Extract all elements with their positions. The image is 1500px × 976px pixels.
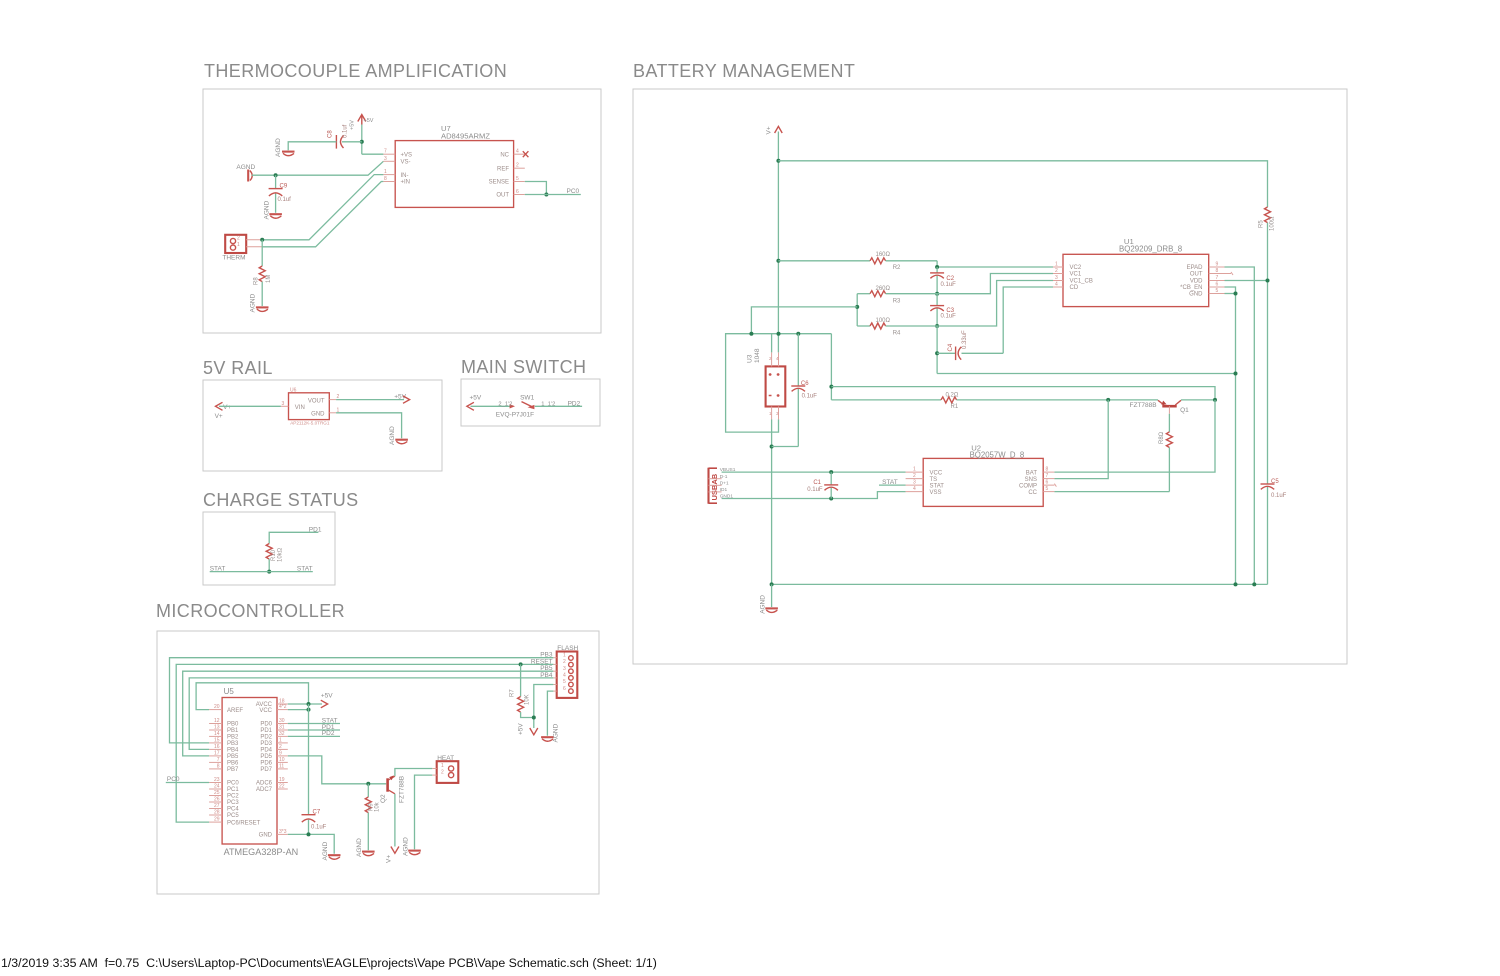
svg-text:+5V: +5V: [321, 692, 333, 699]
wire top rail to R5: [778, 161, 1267, 207]
wire C4 vertical link: [936, 326, 938, 374]
svg-text:FLASH: FLASH: [557, 645, 578, 652]
capacitor C7: [302, 810, 327, 831]
junction C6 bottom rail: [770, 445, 774, 449]
wire PD1 to R10: [269, 532, 318, 543]
svg-text:R5: R5: [1259, 220, 1265, 228]
IC U1 BQ29209_DRB_8: [1063, 237, 1209, 307]
svg-text:PD6: PD6: [260, 761, 272, 767]
svg-text:7: 7: [1216, 275, 1219, 281]
pin stubs U5 right: [277, 699, 288, 835]
svg-text:PD2: PD2: [260, 735, 272, 741]
svg-text:AGND: AGND: [275, 138, 282, 157]
wire GND pin to CB_EN vertical: [1225, 293, 1236, 295]
svg-text:30: 30: [279, 718, 285, 724]
wire net PB3 bundle to FLASH pin1: [170, 658, 554, 743]
svg-text:CD: CD: [1070, 285, 1079, 291]
capacitor C3: [930, 294, 956, 326]
svg-text:COMP: COMP: [1019, 483, 1037, 489]
junction THERM/R8: [260, 238, 264, 242]
svg-text:PB4: PB4: [540, 672, 553, 679]
svg-text:SENSE: SENSE: [489, 180, 509, 186]
svg-text:5: 5: [1046, 486, 1049, 492]
capacitor C9: [269, 184, 292, 204]
resistor R7 10K: [510, 664, 534, 717]
svg-text:PB0: PB0: [227, 722, 239, 728]
svg-text:6: 6: [516, 189, 519, 195]
svg-text:THERM: THERM: [222, 255, 245, 262]
capacitor C8: [328, 124, 349, 148]
capacitor C6: [791, 334, 817, 447]
svg-text:5: 5: [516, 176, 519, 182]
svg-text:BAT: BAT: [1026, 470, 1038, 476]
wire FLASH pin6 to AGND: [547, 691, 553, 736]
svg-text:1: 1: [384, 169, 387, 175]
svg-text:6: 6: [563, 686, 566, 692]
svg-text:25: 25: [214, 790, 220, 796]
svg-text:32: 32: [279, 731, 285, 737]
svg-text:PC2: PC2: [227, 794, 239, 800]
svg-text:R4: R4: [893, 331, 901, 337]
wire THERM pin2 to IN-: [262, 175, 383, 240]
svg-text:AP2112K-5.0TRG1: AP2112K-5.0TRG1: [290, 421, 330, 426]
svg-text:0.1uf: 0.1uf: [343, 124, 349, 138]
svg-text:STAT: STAT: [210, 566, 226, 573]
junction C2 bottom / R3: [935, 292, 939, 296]
wire R2 to VC2 pin: [937, 261, 1053, 267]
ground AGND (left rail): [236, 164, 255, 182]
svg-text:2: 2: [1055, 268, 1058, 274]
wire GND pin to AGND: [288, 834, 334, 853]
svg-text:5: 5: [1216, 288, 1219, 294]
wire C7 to GND rail: [308, 820, 310, 835]
svg-text:13: 13: [214, 725, 220, 731]
svg-text:IN-: IN-: [401, 173, 409, 179]
svg-text:17: 17: [214, 750, 220, 756]
svg-text:+5V: +5V: [364, 118, 374, 124]
svg-text:C4: C4: [948, 343, 954, 351]
svg-text:4*2: 4*2: [279, 704, 287, 710]
ground AGND (5V rail): [389, 426, 408, 445]
connector HEAT: [432, 755, 458, 783]
svg-text:PD7: PD7: [260, 767, 272, 773]
wire CB_EN cross link: [937, 373, 1235, 375]
wire R5 to C5: [1267, 223, 1269, 484]
svg-text:6: 6: [1216, 282, 1219, 288]
pin stubs U7 left: [383, 149, 395, 182]
svg-text:26: 26: [214, 797, 220, 803]
svg-text:AREF: AREF: [227, 708, 243, 714]
switch SW1 EVQ-P7J01F: [496, 394, 556, 418]
svg-text:OUT: OUT: [496, 193, 509, 199]
node PC0: [166, 776, 209, 783]
svg-text:3: 3: [282, 401, 285, 407]
wire SNS vertical: [1054, 400, 1108, 479]
svg-text:0.1uF: 0.1uF: [807, 487, 823, 493]
svg-text:C6: C6: [801, 381, 809, 387]
wire vertical R3-R4 left: [856, 294, 858, 326]
wire AGND rail to VS- pin: [252, 161, 384, 175]
svg-text:VC1: VC1: [1070, 272, 1082, 278]
junction SENSE/OUT: [544, 193, 548, 197]
wire +5V vertical to C7: [308, 704, 310, 815]
junction V+/top rail: [776, 159, 780, 163]
wire BAT vertical: [1054, 400, 1215, 472]
wire R3 to VC1 pin: [937, 274, 1053, 294]
svg-text:U5: U5: [224, 687, 235, 696]
junction C2 top: [935, 265, 939, 269]
transistor Q1 FZT788B: [1130, 400, 1190, 414]
section frame THERMOCOUPLE: [203, 89, 601, 333]
svg-text:10K: 10K: [525, 694, 531, 705]
svg-text:8: 8: [217, 763, 220, 769]
svg-text:7: 7: [384, 149, 387, 155]
wire R10 to STAT rail: [268, 559, 270, 572]
svg-text:R1: R1: [951, 404, 959, 410]
svg-text:4: 4: [563, 673, 566, 679]
svg-text:100Ω: 100Ω: [1270, 216, 1276, 231]
svg-text:VDD: VDD: [1190, 279, 1203, 285]
junction C1 bottom: [829, 497, 833, 501]
wire junction to C9: [275, 175, 277, 188]
svg-text:1M: 1M: [266, 275, 272, 283]
svg-text:8: 8: [384, 176, 387, 182]
resistor R3 260 ohm: [857, 286, 937, 305]
svg-text:EPAD: EPAD: [1187, 265, 1204, 271]
svg-text:19: 19: [279, 777, 285, 783]
svg-text:PB2: PB2: [227, 735, 239, 741]
svg-text:AD8495ARMZ: AD8495ARMZ: [441, 132, 490, 141]
junction STAT: [267, 570, 271, 574]
svg-text:HEAT: HEAT: [437, 755, 454, 762]
svg-text:4: 4: [913, 486, 916, 492]
svg-text:2: 2: [516, 163, 519, 169]
svg-text:22: 22: [279, 784, 285, 790]
svg-text:4: 4: [516, 149, 519, 155]
supply +5V arrow: [350, 115, 374, 131]
wire battery positive feed: [830, 334, 832, 400]
supply V+ arrow left: [215, 402, 232, 420]
svg-text:31: 31: [279, 725, 285, 731]
svg-text:PC0: PC0: [227, 781, 239, 787]
svg-text:VC2: VC2: [1070, 265, 1082, 271]
svg-text:PB5: PB5: [227, 754, 239, 760]
resistor R5 100 ohm: [1259, 207, 1276, 231]
svg-text:BQ29209_DRB_8: BQ29209_DRB_8: [1119, 244, 1183, 253]
wire PD1: [288, 724, 340, 731]
pin stubs U6: [281, 394, 340, 413]
svg-text:11: 11: [279, 763, 284, 769]
wire FLASH pin5 to +5V: [534, 685, 554, 729]
capacitor C1: [807, 472, 838, 498]
svg-text:PB6: PB6: [227, 761, 239, 767]
svg-text:14: 14: [214, 731, 220, 737]
svg-text:AGND: AGND: [356, 838, 363, 857]
junction GND/C7: [307, 832, 311, 836]
wire +VS pin 7: [362, 153, 384, 155]
wire cell tap to U3: [751, 307, 857, 334]
wire U3 top left pin: [771, 334, 773, 353]
svg-text:2: 2: [441, 770, 444, 776]
resistor R8 1M: [254, 266, 273, 285]
svg-text:PD3: PD3: [260, 741, 272, 747]
svg-text:PD1: PD1: [260, 728, 272, 734]
svg-text:3*3: 3*3: [279, 829, 287, 835]
wire V+ vertical trunk: [777, 132, 779, 353]
svg-text:BQ2057W_D_8: BQ2057W_D_8: [970, 451, 1025, 460]
svg-text:FZT788B: FZT788B: [1130, 402, 1157, 409]
supply +5V arrow (micro): [321, 692, 334, 708]
svg-text:R8: R8: [254, 277, 260, 285]
wire C8 left to AGND: [288, 142, 336, 150]
pin stubs U2 left: [906, 467, 924, 493]
svg-text:PB7: PB7: [227, 767, 239, 773]
pin stubs U2 right: [1043, 467, 1056, 493]
junction rail CB_EN: [1234, 582, 1238, 586]
svg-text:+5V: +5V: [470, 394, 482, 401]
wire net AREF to +5V vertical: [196, 683, 308, 710]
svg-text:ADC6: ADC6: [256, 781, 273, 787]
junction C9 on AGND rail: [274, 173, 278, 177]
svg-text:1: 1: [1055, 262, 1058, 268]
svg-text:AGND: AGND: [759, 595, 766, 614]
junction +5V/C8: [360, 140, 364, 144]
svg-text:PC1: PC1: [227, 787, 239, 793]
wire rail to AGND: [771, 584, 773, 607]
svg-text:AGND: AGND: [322, 841, 329, 860]
svg-text:SNS: SNS: [1025, 477, 1037, 483]
svg-text:BATTERY MANAGEMENT: BATTERY MANAGEMENT: [633, 61, 855, 81]
svg-text:2: 2: [913, 473, 916, 479]
svg-text:STAT: STAT: [297, 566, 313, 573]
wire THERM pin1 to +IN: [262, 182, 383, 247]
pin stubs U5 left: [209, 704, 222, 823]
svg-text:8: 8: [1046, 467, 1049, 473]
svg-text:V+: V+: [223, 404, 231, 411]
svg-text:PD2: PD2: [568, 401, 581, 408]
section frame MAIN SWITCH: [461, 379, 600, 426]
junction wire A: [829, 385, 833, 389]
svg-text:VS-: VS-: [401, 160, 411, 166]
wire SENSE to OUT: [525, 182, 547, 195]
svg-text:REF: REF: [497, 166, 509, 172]
svg-text:AGND: AGND: [250, 293, 257, 312]
svg-text:Q1: Q1: [1180, 407, 1189, 414]
wire net PB5 bundle to FLASH pin3: [183, 671, 554, 756]
junction VDD/R5: [1266, 279, 1270, 283]
svg-text:NC: NC: [500, 152, 509, 158]
svg-text:CC: CC: [1028, 490, 1037, 496]
svg-text:VOUT: VOUT: [308, 398, 325, 404]
ground AGND (C9): [264, 200, 282, 219]
wire +5V vertical to junction: [361, 125, 363, 155]
svg-text:AGND: AGND: [264, 200, 271, 219]
wire C9 to AGND: [275, 194, 277, 213]
svg-text:100Ω: 100Ω: [876, 318, 891, 324]
svg-text:R10: R10: [271, 549, 277, 561]
supply +5V arrow down (FLASH): [517, 723, 538, 735]
junction R7/+5V: [532, 716, 536, 720]
connector U3 1048 battery clip: [747, 348, 786, 419]
svg-text:PC4: PC4: [227, 807, 239, 813]
junction AVCC: [307, 702, 311, 706]
svg-text:C1: C1: [813, 480, 821, 486]
svg-text:3: 3: [384, 156, 387, 162]
battery holder U3 wire loop: [726, 332, 832, 432]
wire +5V to switch: [471, 405, 513, 407]
wire junction to R8: [261, 240, 263, 266]
junction rail EPAD: [1252, 582, 1256, 586]
junction SNS tap: [1106, 398, 1110, 402]
svg-text:+VS: +VS: [401, 152, 413, 158]
svg-text:+5V: +5V: [350, 120, 356, 130]
svg-text:C7: C7: [313, 810, 321, 816]
svg-text:7: 7: [1046, 473, 1049, 479]
wire PD2: [288, 730, 340, 737]
svg-text:STAT: STAT: [882, 479, 898, 486]
svg-text:2: 2: [237, 236, 240, 242]
connector FLASH: [553, 645, 578, 698]
svg-text:TS: TS: [930, 477, 938, 483]
svg-text:VIN: VIN: [295, 405, 305, 411]
junction rail AGND: [770, 582, 774, 586]
svg-text:0.1uF: 0.1uF: [941, 314, 957, 320]
svg-text:GND: GND: [259, 833, 273, 839]
svg-text:9: 9: [279, 750, 282, 756]
svg-text:R8Ω: R8Ω: [1159, 431, 1165, 444]
junction BAT line: [1213, 398, 1217, 402]
svg-text:PB4: PB4: [227, 748, 239, 754]
NC pin X marker: [523, 151, 529, 157]
svg-text:AGND: AGND: [236, 164, 255, 171]
svg-text:PD0: PD0: [260, 722, 272, 728]
wire CB_EN down to rail: [1225, 287, 1236, 584]
svg-text:PB3: PB3: [227, 741, 239, 747]
ground AGND (FLASH): [541, 723, 559, 742]
svg-text:0.1uF: 0.1uF: [1271, 493, 1287, 499]
svg-text:THERMOCOUPLE AMPLIFICATION: THERMOCOUPLE AMPLIFICATION: [204, 61, 507, 81]
svg-text:23: 23: [214, 777, 220, 783]
svg-text:7: 7: [217, 757, 220, 763]
wire VBUS1 to VCC: [722, 471, 906, 473]
connector THERM: [222, 235, 262, 262]
svg-text:24: 24: [214, 784, 220, 790]
svg-text:20: 20: [214, 704, 220, 710]
op-amp U7 AD8495ARMZ: [395, 124, 513, 207]
svg-text:0.2Ω: 0.2Ω: [946, 393, 959, 399]
svg-text:28: 28: [214, 810, 220, 816]
svg-text:PD4: PD4: [260, 748, 272, 754]
svg-text:C8: C8: [328, 130, 334, 138]
svg-text:3: 3: [1055, 275, 1058, 281]
wire R8 to CC pin: [1054, 491, 1169, 493]
svg-text:U3: U3: [747, 354, 754, 363]
svg-text:ID1: ID1: [720, 487, 728, 493]
svg-text:+IN: +IN: [401, 180, 411, 186]
svg-text:5: 5: [563, 679, 566, 685]
svg-text:3: 3: [913, 480, 916, 486]
svg-text:VC1_CB: VC1_CB: [1070, 279, 1093, 285]
svg-text:D-1: D-1: [720, 474, 728, 480]
wire C6 bottom link: [772, 446, 799, 448]
svg-text:12: 12: [214, 718, 220, 724]
transistor Q2 FZT788B: [380, 775, 406, 803]
svg-text:VSS: VSS: [930, 490, 942, 496]
junction RESET/R7: [519, 662, 523, 666]
ground AGND (HEAT): [402, 837, 421, 856]
wire Q2 emitter to V+: [394, 794, 396, 847]
pin OUT open stub: [1225, 272, 1234, 275]
svg-text:0.1uF: 0.1uF: [802, 393, 818, 399]
junction CB_EN cross: [1234, 372, 1238, 376]
svg-text:29: 29: [214, 817, 220, 823]
wire VCC: [288, 709, 309, 711]
svg-text:R3: R3: [893, 298, 901, 304]
capacitor C5: [1261, 479, 1287, 584]
svg-text:1/3/2019 3:35 AM f=0.75 C:\U: 1/3/2019 3:35 AM f=0.75 C:\Users\Laptop-…: [1, 956, 657, 970]
wire net PB4 bundle to FLASH pin4: [189, 678, 553, 750]
resistor R8 (battery): [1159, 414, 1173, 492]
svg-text:2: 2: [279, 744, 282, 750]
svg-text:V+: V+: [766, 126, 773, 134]
svg-text:FZT788B: FZT788B: [399, 776, 406, 803]
wire GND to AGND: [336, 413, 402, 439]
svg-text:U6: U6: [290, 388, 297, 394]
pin stubs U1 right: [1209, 262, 1225, 295]
ground AGND (C8): [275, 138, 295, 157]
wire ground trunk from U3: [771, 419, 773, 584]
svg-text:VCC: VCC: [930, 470, 943, 476]
svg-text:10kΩ: 10kΩ: [278, 547, 284, 562]
svg-text:C9: C9: [280, 184, 288, 190]
svg-text:1: 1: [237, 242, 240, 248]
svg-text:2: 2: [563, 659, 566, 665]
svg-text:4: 4: [1055, 282, 1058, 288]
supply V+ arrow top: [766, 126, 783, 134]
svg-text:16: 16: [214, 744, 220, 750]
svg-text:R2: R2: [893, 265, 901, 271]
svg-text:ADC7: ADC7: [256, 787, 273, 793]
svg-text:8: 8: [1216, 268, 1219, 274]
wire STAT rail: [210, 571, 313, 573]
ground AGND (battery): [759, 595, 778, 614]
ground AGND (R8): [250, 293, 269, 312]
junction V+/R2: [776, 259, 780, 263]
junction cell tap: [855, 305, 859, 309]
svg-text:AGND: AGND: [389, 426, 396, 445]
svg-text:D+1: D+1: [720, 480, 729, 486]
capacitor C2: [930, 267, 956, 294]
section frame CHARGE STATUS: [203, 512, 335, 585]
svg-text:Q2: Q2: [380, 794, 387, 803]
svg-text:STAT: STAT: [930, 483, 945, 489]
wire C8 right to junction: [342, 141, 362, 143]
svg-text:PC3: PC3: [227, 800, 239, 806]
svg-text:15: 15: [214, 737, 220, 743]
svg-text:0.33uF: 0.33uF: [962, 330, 968, 349]
svg-text:6: 6: [1046, 480, 1049, 486]
svg-text:5V RAIL: 5V RAIL: [203, 358, 273, 378]
svg-text:PC5: PC5: [227, 813, 239, 819]
svg-text:C5: C5: [1271, 479, 1279, 485]
wire A to BAT vertical: [831, 387, 1215, 400]
resistor R1 0.2 ohm: [831, 393, 1158, 410]
resistor R2 160 ohm: [778, 252, 937, 271]
svg-text:V+: V+: [215, 413, 223, 420]
wire net RESET bundle to FLASH pin2: [176, 664, 553, 822]
junction C3 bottom / R4: [935, 324, 939, 328]
resistor R4 100 ohm: [857, 318, 937, 337]
